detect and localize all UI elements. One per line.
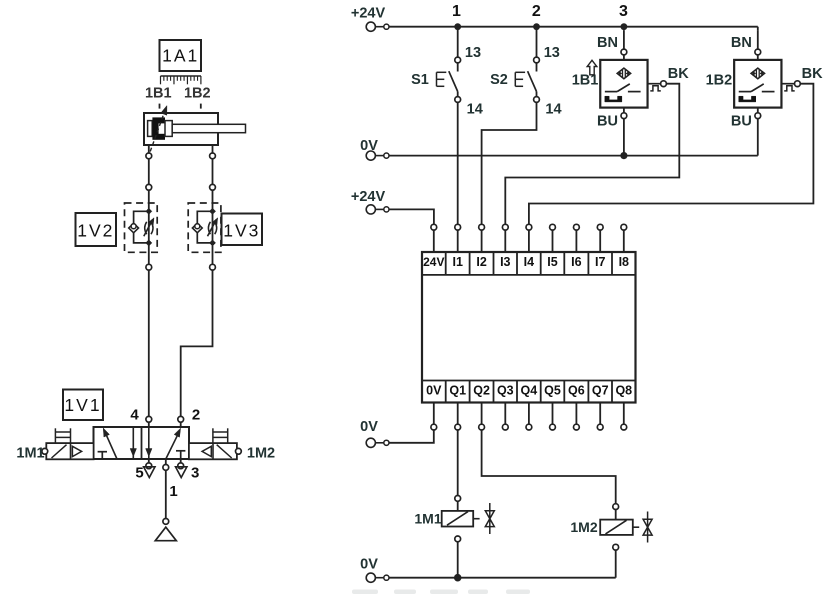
1M1 manual override ladder	[54, 428, 56, 443]
svg-text:2: 2	[192, 407, 200, 424]
1V1 left box flow diagonal	[105, 431, 117, 459]
wire +24V to PLC 24V input	[389, 209, 434, 224]
solenoid actuator 1M2 (right)	[189, 443, 237, 459]
switch S1 (NO pushbutton)	[457, 27, 459, 57]
svg-text:Q6: Q6	[568, 384, 585, 398]
svg-text:BN: BN	[731, 35, 752, 51]
svg-text:2: 2	[532, 3, 541, 20]
svg-text:13: 13	[465, 45, 481, 61]
wire Q1 to solenoid 1M1	[457, 430, 459, 495]
svg-text:I3: I3	[500, 255, 510, 269]
svg-text:Q7: Q7	[592, 384, 609, 398]
1V3 junction bottom	[209, 240, 215, 246]
svg-text:1M2: 1M2	[570, 519, 597, 535]
compressed air supply	[163, 519, 169, 525]
wire 1B2 BK to PLC input I4	[529, 84, 814, 225]
ruler tick 1B2	[200, 104, 202, 109]
proximity sensor 1B1 branch from +24V rail	[623, 30, 625, 49]
label box 1A1	[160, 40, 202, 71]
0V terminal pair	[366, 151, 375, 160]
flow control valve 1V2 (dashed enclosure)	[125, 203, 158, 252]
solenoid 1M2	[613, 504, 619, 510]
0V terminal pair (PLC output side)	[366, 438, 375, 447]
1V3 check valve	[192, 223, 202, 233]
1V2 lower connection	[146, 264, 152, 270]
wire 1B1 BU to 0V rail	[623, 119, 625, 156]
svg-text:1V1: 1V1	[64, 395, 101, 415]
svg-text:3: 3	[191, 465, 199, 482]
1V2 throttle	[145, 222, 147, 234]
1V2 check valve	[129, 223, 139, 233]
0V rail	[389, 155, 758, 157]
label box 1V2	[76, 213, 117, 246]
1B2 reed symbol (diamond)	[751, 68, 764, 79]
1M2 right connection	[236, 448, 242, 454]
svg-text:Q1: Q1	[449, 384, 466, 398]
1V3 lower connection	[210, 264, 216, 270]
node 1	[454, 23, 461, 30]
flow control valve 1V3 (dashed enclosure)	[188, 203, 221, 252]
1B2 output stage symbol	[739, 96, 756, 102]
1V1 right box flow diagonal (1 to 2)	[166, 431, 180, 459]
piston position arrow (dashed)	[150, 116, 163, 152]
svg-text:BU: BU	[597, 114, 618, 130]
+24V rail corner into 1B2 BN	[757, 27, 759, 30]
1B2 BU terminal	[757, 108, 759, 113]
1V1 left box down arrow	[132, 427, 134, 459]
proximity sensor 1B1 body	[600, 60, 647, 108]
pneumatic line: cylinder left port to valve port 4	[148, 159, 150, 185]
svg-text:3: 3	[619, 3, 628, 20]
svg-text:0V: 0V	[360, 557, 378, 573]
valve port 5 exhaust	[148, 459, 150, 463]
svg-text:I7: I7	[595, 255, 605, 269]
cylinder port right	[212, 145, 214, 153]
wire 1B2 BU to 0V rail	[757, 119, 759, 156]
cylinder cushioning bracket	[148, 121, 153, 137]
piston rod collar	[165, 121, 172, 137]
+24V second terminal pair	[366, 205, 375, 214]
cylinder 1A1 body	[144, 113, 218, 145]
svg-text:S1: S1	[411, 72, 429, 88]
1B1 reed symbol (diamond)	[617, 68, 630, 79]
svg-text:I6: I6	[571, 255, 581, 269]
svg-text:1: 1	[452, 3, 461, 20]
0V bottom terminal pair	[366, 573, 375, 582]
1V3 throttle	[208, 222, 210, 234]
junction 1M1 / 0V bottom rail	[454, 574, 462, 582]
wire 1M2 to bottom 0V rail	[613, 544, 619, 550]
1M1 valve target symbol	[489, 503, 491, 534]
1M2 manual override ladder	[212, 428, 214, 443]
wire 1B1 BK to PLC input I3	[505, 84, 679, 225]
1B2 switch contact	[739, 91, 751, 93]
valve 1V1 body	[94, 427, 190, 459]
svg-text:BK: BK	[668, 66, 689, 82]
1V2 junction bottom	[146, 240, 152, 246]
svg-text:Q8: Q8	[615, 384, 632, 398]
svg-text:I4: I4	[524, 255, 534, 269]
1V2 check-valve bypass loop	[134, 211, 149, 243]
1V3 junction top	[209, 208, 215, 214]
svg-text:5: 5	[135, 465, 143, 482]
svg-text:+24V: +24V	[351, 189, 386, 205]
svg-text:24V: 24V	[423, 255, 444, 269]
svg-text:I2: I2	[476, 255, 486, 269]
wire 1M1 to bottom 0V rail	[455, 536, 461, 542]
svg-text:I8: I8	[619, 255, 629, 269]
svg-text:1: 1	[169, 483, 177, 500]
svg-text:S2: S2	[490, 72, 508, 88]
cylinder port left	[148, 145, 150, 153]
svg-text:1M1: 1M1	[16, 446, 44, 462]
1V2 junction top	[146, 208, 152, 214]
1B1 BK output with pulse symbol	[648, 83, 661, 85]
+24V supply rail	[389, 26, 758, 28]
svg-text:0V: 0V	[426, 384, 442, 398]
svg-text:0V: 0V	[360, 419, 378, 435]
1V1 left box blocked port T	[98, 451, 107, 453]
1B1 switch contact	[605, 91, 617, 93]
1M2 valve target symbol	[647, 512, 649, 543]
1B1 BU terminal	[623, 108, 625, 113]
svg-text:1V3: 1V3	[223, 221, 260, 241]
1B1 output stage symbol	[605, 96, 622, 102]
wire Q2 to solenoid 1M2	[482, 430, 616, 504]
piston rod	[172, 124, 245, 132]
svg-text:I1: I1	[452, 255, 462, 269]
label box 1V3	[222, 214, 263, 246]
svg-text:BK: BK	[802, 66, 823, 82]
svg-text:Q4: Q4	[521, 384, 538, 398]
svg-text:13: 13	[544, 45, 560, 61]
proximity sensor 1B2 branch from +24V rail	[757, 30, 759, 49]
svg-text:14: 14	[545, 102, 561, 118]
svg-text:I5: I5	[547, 255, 557, 269]
solenoid actuator 1M1 (left)	[46, 443, 93, 459]
svg-text:Q5: Q5	[544, 384, 561, 398]
svg-text:1A1: 1A1	[162, 46, 199, 66]
svg-text:BU: BU	[731, 114, 752, 130]
1V1 right box down arrow (port 4 to 5)	[148, 427, 150, 459]
1B2 BK output with pulse symbol	[781, 83, 794, 85]
svg-text:1M2: 1M2	[247, 446, 275, 462]
PLC body	[422, 252, 636, 403]
svg-text:1B1: 1B1	[145, 86, 172, 102]
svg-text:14: 14	[467, 102, 483, 118]
svg-text:1M1: 1M1	[414, 511, 441, 527]
wire S1 to PLC input I1	[457, 102, 459, 224]
svg-text:1B2: 1B2	[184, 86, 211, 102]
1V3 check-valve bypass loop	[197, 211, 212, 243]
valve port 3 exhaust	[180, 459, 182, 463]
svg-text:1B2: 1B2	[706, 73, 733, 89]
solenoid 1M1	[455, 496, 461, 502]
svg-text:1V2: 1V2	[77, 221, 114, 241]
switch S2 (NO pushbutton)	[536, 27, 538, 57]
1B1 actuation arrow	[587, 60, 597, 75]
0V bottom rail	[389, 577, 616, 579]
wire S2 to PLC input I2	[482, 102, 537, 224]
cylinder position ruler	[161, 75, 202, 77]
+24V terminal pair	[366, 22, 375, 31]
svg-text:4: 4	[130, 407, 139, 424]
faint cropped caption at bottom edge	[352, 590, 378, 595]
cylinder piston (black)	[152, 117, 165, 139]
1M1 left connection	[42, 448, 48, 454]
junction 0V / 1B1 BU / 1B2 BU	[620, 152, 627, 159]
valve port 1	[165, 459, 167, 464]
svg-text:Q3: Q3	[497, 384, 514, 398]
1V1 right box blocked port T	[176, 450, 185, 452]
node 2	[533, 23, 540, 30]
proximity sensor 1B2 body	[734, 60, 781, 108]
ruler tick 1B1	[159, 104, 161, 109]
svg-text:+24V: +24V	[351, 6, 386, 22]
pneumatic line: cylinder right port to valve port 2	[212, 159, 214, 185]
svg-text:Q2: Q2	[473, 384, 490, 398]
svg-text:BN: BN	[597, 35, 618, 51]
node 3	[621, 23, 628, 30]
label box 1V1	[63, 390, 103, 421]
wire 0V terminal to PLC 0V output	[389, 430, 434, 443]
